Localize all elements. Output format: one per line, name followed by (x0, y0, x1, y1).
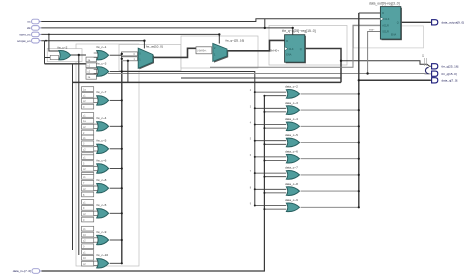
group box left gate column (76, 44, 139, 266)
group box data_out register (354, 26, 424, 48)
group box gate fw_c~2 (47, 49, 82, 62)
svg-text:8: 8 (250, 186, 252, 189)
svg-text:ENA: ENA (391, 34, 396, 37)
gate fw_c~7 (94, 90, 123, 105)
wire stub node A (264, 19, 266, 28)
wire register U3 Q output (401, 21, 431, 23)
svg-text:oc: oc (27, 20, 31, 24)
gate fw_c~8 (94, 178, 123, 193)
svg-text:clk: clk (27, 26, 31, 30)
gate data_c~5 (250, 133, 360, 147)
input pin scen_nc (19, 32, 41, 37)
svg-text:ACLR: ACLR (382, 24, 389, 27)
svg-text:3: 3 (250, 105, 252, 108)
wire gate G1 input b (45, 41, 51, 64)
register thr_q (270, 29, 316, 63)
gate fw_c~10 (94, 253, 123, 268)
wire thr register Q out (305, 49, 341, 83)
group box mux U1 (119, 45, 181, 71)
svg-text:fw_q~[25..16]: fw_q~[25..16] (226, 39, 245, 43)
svg-text:data_c~2: data_c~2 (285, 85, 298, 89)
wire gate G1 output (70, 54, 87, 56)
svg-text:data_c~8: data_c~8 (285, 182, 298, 186)
svg-text:D: D (286, 40, 288, 43)
svg-text:4: 4 (250, 122, 252, 125)
svg-text:9: 9 (250, 203, 252, 206)
svg-text:2: 2 (250, 89, 252, 92)
svg-text:data_c~3: data_c~3 (285, 101, 298, 105)
gate fw_c~9 (94, 230, 123, 245)
svg-text:data_c~4: data_c~4 (285, 117, 298, 121)
group box thr register (269, 26, 347, 66)
wire trunk fw_c3 net (122, 72, 255, 206)
wire aclr net gray (210, 25, 380, 67)
svg-text:scen_nc: scen_nc (19, 33, 31, 37)
wire mux U2 output (227, 40, 285, 50)
svg-text:data_q[7..0]: data_q[7..0] (442, 79, 458, 83)
svg-text:thr_q[15..0]: thr_q[15..0] (442, 72, 457, 76)
svg-text:fw_c~5: fw_c~5 (97, 139, 107, 143)
wire thr_q out to pin (341, 61, 431, 67)
svg-text:data_c~5: data_c~5 (285, 133, 298, 137)
group box mux U2 (181, 36, 258, 68)
wire trunk B4 (181, 77, 341, 79)
svg-text:fw_c~3: fw_c~3 (97, 61, 107, 65)
svg-text:6: 6 (250, 154, 252, 157)
wire thick feed G1 bottom (45, 63, 87, 65)
svg-text:ENA: ENA (286, 54, 291, 57)
register data_out (369, 2, 402, 41)
wire thr register clock drop (292, 28, 294, 35)
gate data_c~2 (250, 85, 360, 99)
gate fw_c~6 (94, 158, 123, 173)
output pin thr_q[25..16] (432, 64, 459, 69)
svg-text:fw_c~6: fw_c~6 (97, 158, 107, 162)
svg-text:data_in~[7..0]: data_in~[7..0] (13, 269, 31, 273)
output pin data_output[9..0] (432, 20, 465, 25)
svg-text:fw_c~5: fw_c~5 (97, 203, 107, 207)
mux U1 fw_us (138, 44, 163, 69)
svg-text:Q: Q (397, 21, 399, 24)
svg-text:fw_c~2: fw_c~2 (58, 45, 68, 49)
svg-text:fw_c~10: fw_c~10 (97, 253, 109, 257)
wire hook arc (425, 67, 428, 73)
svg-text:Q: Q (300, 48, 302, 51)
svg-text:fw_c~4: fw_c~4 (97, 116, 107, 120)
output pin data_q[7..0] (432, 78, 458, 83)
svg-text:7: 7 (250, 170, 252, 173)
svg-text:CLK: CLK (385, 18, 390, 21)
wire register U3 D input (359, 12, 381, 14)
gate fw_c~3 (94, 61, 123, 76)
svg-text:fw_c~9: fw_c~9 (97, 230, 107, 234)
input pin oc (27, 19, 41, 24)
svg-text:fw_us[10..0]: fw_us[10..0] (146, 44, 163, 48)
input pin data_in (13, 269, 42, 274)
wire net scnpw (41, 40, 144, 42)
mux U1 input box 0 (122, 52, 138, 56)
svg-text:fw_c~8: fw_c~8 (97, 178, 107, 182)
wire mux U1 input 0 (121, 53, 123, 55)
svg-text:thr_q~a[25]~reg[15..0]: thr_q~a[25]~reg[15..0] (282, 29, 316, 33)
gate data_c~4 (250, 117, 360, 131)
input constant boxes left column (82, 57, 97, 266)
input pin scnpw_en (17, 38, 41, 43)
wire net scen (41, 33, 219, 35)
mux U1 input box 1 (122, 57, 138, 61)
tick marks node C (425, 58, 427, 66)
wire gate G1 input a (49, 34, 59, 51)
gate data_c~9 (250, 198, 360, 212)
mux U2 input box (196, 47, 212, 54)
wire mux U2 select drop (218, 34, 220, 43)
gate fw_c~2 (50, 45, 70, 60)
wire fw output bus (121, 54, 123, 263)
wire mux U1 select drop (143, 41, 145, 49)
svg-text:fw_c~7: fw_c~7 (97, 90, 107, 94)
svg-text:fw_c~1: fw_c~1 (97, 45, 107, 49)
gate data_c~8 (250, 182, 360, 196)
wire mux U1 input1 riser (127, 61, 129, 83)
wire data bus vertical (358, 13, 360, 207)
wire data_q out to pin (359, 79, 431, 81)
svg-text:scnpw_en: scnpw_en (17, 39, 31, 43)
gate fw_c~4 (94, 116, 123, 131)
wire left bus 2 (72, 64, 74, 250)
svg-text:( 6hH0+t: ( 6hH0+t (197, 49, 207, 52)
input pin clk (27, 26, 41, 31)
output pin thr_q[15..0] (432, 71, 457, 76)
wire left feed bus (78, 55, 80, 255)
wire net clk top (41, 19, 380, 22)
wire trunk thr feedback (73, 81, 342, 83)
wire trunk gray mid (108, 73, 431, 75)
svg-text:data_c~9: data_c~9 (285, 198, 298, 202)
mux U2 fw_q (213, 39, 245, 63)
wire data_in bottom (42, 96, 265, 271)
wire mux U1 output (153, 48, 196, 57)
gate data_c~7 (250, 166, 360, 180)
gate data_c~6 (250, 149, 360, 163)
svg-text:data_c~6: data_c~6 (285, 149, 298, 153)
junction dots (45, 27, 369, 82)
svg-text:5: 5 (250, 138, 252, 141)
gate fw_c~5 (94, 139, 123, 154)
gate fw_c~1 (94, 45, 123, 60)
svg-text:data_output[9..0]: data_output[9..0] (442, 21, 465, 25)
svg-text:24: 24 (422, 54, 425, 57)
svg-text:data_out[9]~reg[3..0]: data_out[9]~reg[3..0] (369, 2, 400, 6)
wire ena net riser gray (368, 32, 381, 74)
svg-text:6hH0+: 6hH0+ (270, 48, 279, 52)
svg-text:SCLR: SCLR (382, 31, 389, 34)
gate data_c~3 (250, 101, 360, 115)
svg-text:thr_q[25..16]: thr_q[25..16] (442, 65, 459, 69)
wire net rst (41, 27, 293, 29)
svg-text:ena~: ena~ (369, 29, 375, 32)
svg-text:D: D (382, 12, 384, 15)
gate fw_c~5 (94, 203, 123, 218)
svg-text:data_c~7: data_c~7 (285, 166, 298, 170)
constant box gate fw_c~2 input (50, 55, 58, 59)
svg-text:CLK: CLK (289, 48, 294, 51)
